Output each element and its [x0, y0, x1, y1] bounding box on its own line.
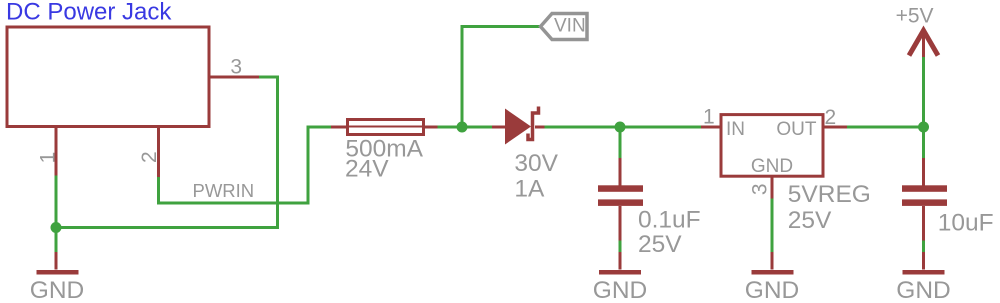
svg-text:5VREG: 5VREG: [788, 181, 871, 208]
svg-text:GND: GND: [751, 156, 793, 177]
svg-text:GND: GND: [30, 277, 84, 303]
svg-text:3: 3: [749, 183, 772, 195]
svg-text:1: 1: [703, 106, 715, 129]
svg-text:VIN: VIN: [554, 16, 586, 37]
svg-text:10uF: 10uF: [938, 209, 994, 236]
svg-text:25V: 25V: [788, 207, 832, 234]
svg-text:+5V: +5V: [896, 5, 934, 28]
svg-text:24V: 24V: [345, 155, 389, 182]
svg-text:IN: IN: [726, 119, 745, 140]
svg-text:0.1uF: 0.1uF: [638, 206, 701, 233]
svg-text:30V: 30V: [514, 150, 558, 177]
svg-text:GND: GND: [745, 277, 799, 303]
svg-text:3: 3: [230, 55, 242, 78]
svg-text:25V: 25V: [638, 231, 682, 258]
svg-text:GND: GND: [896, 277, 950, 303]
svg-text:PWRIN: PWRIN: [193, 180, 255, 201]
svg-text:2: 2: [825, 106, 837, 129]
svg-text:1A: 1A: [514, 176, 545, 203]
svg-text:DC Power Jack: DC Power Jack: [6, 0, 172, 26]
svg-text:1: 1: [37, 152, 60, 164]
svg-text:2: 2: [138, 151, 161, 163]
svg-text:GND: GND: [593, 277, 647, 303]
svg-text:OUT: OUT: [776, 119, 817, 140]
